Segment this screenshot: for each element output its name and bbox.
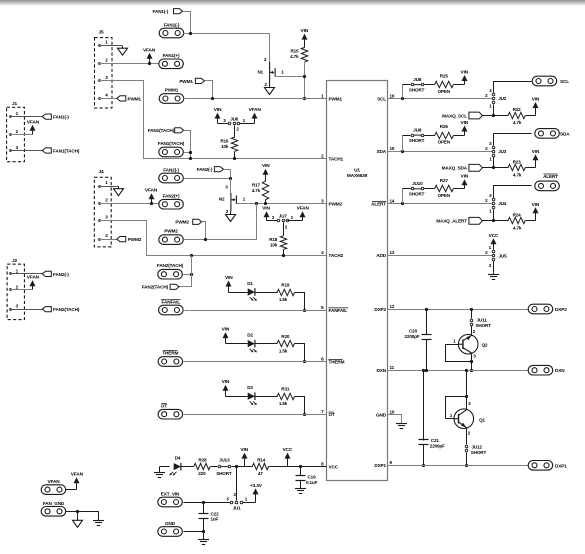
svg-text:Q1: Q1 [479, 418, 485, 423]
wire FAN2(TACH) drop to flag [180, 256, 192, 287]
svg-text:J4: J4 [98, 169, 104, 175]
power VIN at R26 [462, 126, 468, 132]
wire DXP1 line U1 pin 9 to test point [388, 465, 529, 467]
wire D4 to R28 [182, 466, 194, 468]
svg-text:DXP2: DXP2 [555, 307, 567, 312]
wire R26 to VIN [454, 135, 465, 137]
svg-text:FAN2(+): FAN2(+) [163, 193, 180, 198]
svg-text:FAN2(TACH): FAN2(TACH) [157, 263, 184, 268]
svg-text:FAN1(-): FAN1(-) [53, 115, 69, 120]
wire branch up to JU9 [402, 136, 404, 152]
wire ADD line U1 pin 13 to JU5 [388, 255, 493, 257]
ground below JU5 [493, 273, 495, 274]
svg-text:R23: R23 [513, 159, 522, 164]
svg-text:4.7k: 4.7k [252, 188, 261, 193]
op-amp U1 MAX6639 IC body [327, 81, 388, 481]
svg-text:GND: GND [165, 521, 176, 526]
svg-text:EXT_VIN: EXT_VIN [161, 491, 180, 496]
svg-text:VIN: VIN [222, 327, 230, 333]
svg-text:R20: R20 [281, 334, 290, 339]
svg-text:MAXQ_SDA: MAXQ_SDA [442, 166, 468, 171]
wire JU1 pin2 riser [236, 467, 238, 501]
svg-text:SHORT: SHORT [216, 471, 232, 476]
svg-text:MAXQ_SCL: MAXQ_SCL [442, 113, 467, 118]
wire R28 to JU13 [211, 466, 218, 468]
wire JU6 pin2 to R16 [234, 126, 236, 138]
wire J1 pin3 [10, 150, 12, 152]
svg-text:R14: R14 [257, 457, 266, 462]
capacitor C19 0.1uF [300, 467, 302, 476]
power VIN at R23 [533, 154, 539, 160]
power VIN at R24 [533, 207, 539, 213]
svg-text:JU6: JU6 [230, 117, 239, 122]
svg-text:VIN: VIN [461, 70, 469, 76]
svg-text:JU3: JU3 [498, 149, 507, 154]
wire TACH2 line to U1 pin 4 [192, 255, 327, 257]
svg-text:SHORT: SHORT [476, 323, 492, 328]
wire gnd to D4 [160, 466, 170, 468]
wire FANFAIL line to U1 pin 5 [185, 310, 327, 312]
svg-text:VIN: VIN [222, 379, 230, 385]
resistor R23 4.7k [494, 167, 509, 169]
resistor R14 47 [252, 463, 268, 469]
wire J2 pin2 [10, 289, 12, 291]
wire branch up to JU10 [402, 189, 404, 204]
power VCC above JU5 [491, 238, 497, 244]
svg-text:JU9: JU9 [413, 128, 422, 133]
svg-text:OT: OT [161, 403, 167, 408]
wire J5 pin1 [99, 45, 101, 47]
power VFAN on J4 pin2 [149, 193, 155, 199]
svg-text:VIN: VIN [532, 149, 540, 155]
wire J2 pin3 [10, 309, 12, 311]
node PWM1 flag at J5 [117, 96, 126, 101]
ground triangle FAN_GND [77, 511, 79, 520]
svg-text:14: 14 [390, 198, 395, 203]
ground below GND line [203, 532, 205, 540]
jumper JU2 3-pin [492, 97, 495, 100]
svg-text:16: 16 [390, 93, 395, 98]
svg-text:VFAN: VFAN [27, 275, 40, 281]
svg-text:FAN1(-): FAN1(-) [153, 9, 169, 14]
wire PWM1 line to U1 pin 1 [184, 98, 327, 100]
resistor R31 1.5k [277, 393, 295, 399]
svg-text:R31: R31 [281, 387, 290, 392]
svg-text:1.5k: 1.5k [279, 297, 288, 302]
power VIN above R17 [263, 169, 269, 175]
svg-text:VIN: VIN [301, 28, 309, 34]
resistor R19 1.5k [277, 289, 295, 295]
wire Q1 base-collector loop [446, 397, 467, 419]
wire GND tp line [184, 531, 204, 533]
svg-text:MAXQ_ALERT: MAXQ_ALERT [436, 219, 467, 224]
svg-text:FAN1(+): FAN1(+) [163, 53, 180, 58]
wire JU2 pin1 down to MAXQ line [493, 105, 495, 116]
wire JU4 pin3 to ALERT test point [494, 186, 532, 199]
svg-text:JU2: JU2 [498, 96, 507, 101]
wire PWM2 flag drop [202, 222, 206, 240]
svg-text:1.5k: 1.5k [279, 349, 288, 354]
transistor N2 [230, 193, 232, 212]
wire SDA line U1 to jumper JU3 [388, 151, 493, 153]
svg-text:OPEN: OPEN [438, 89, 451, 94]
node PWM2 flag [193, 219, 202, 224]
svg-text:PWM2: PWM2 [164, 229, 178, 234]
resistor R25 OPEN [424, 84, 435, 86]
svg-text:JU5: JU5 [499, 254, 508, 259]
connector J4 [94, 177, 111, 247]
svg-text:0.1uF: 0.1uF [306, 480, 318, 485]
ground at U1 pin 10 [401, 422, 403, 425]
svg-text:R16: R16 [220, 139, 229, 144]
svg-text:ADD: ADD [376, 253, 386, 258]
wire JU5 pin3 to ground [493, 261, 495, 273]
svg-text:JU1: JU1 [233, 506, 242, 511]
wire FAN2(TACH) tp stub [183, 274, 192, 276]
power VIN at R25 [462, 75, 468, 81]
svg-text:OT: OT [329, 412, 335, 417]
svg-text:C20: C20 [409, 329, 418, 334]
wire DXN to Q1 collector [466, 371, 468, 410]
svg-text:R25: R25 [440, 74, 449, 79]
svg-text:VFAN: VFAN [248, 107, 261, 113]
node FAN2(TACH) flag at J2 [42, 307, 51, 312]
svg-text:R15: R15 [291, 49, 300, 54]
svg-text:DXN: DXN [555, 368, 565, 373]
wire GND pin 10 [388, 415, 402, 423]
node FAN1(-) flag top [174, 9, 183, 14]
svg-text:PWM1: PWM1 [179, 79, 193, 84]
wire VFAN tp to arrow [66, 489, 77, 491]
svg-text:JU4: JU4 [498, 201, 507, 206]
resistor R22 4.7k [494, 115, 509, 117]
test point DXN [528, 365, 553, 375]
wire Q1 emitter to JU12 [466, 428, 468, 445]
node junction FAN1(-) [189, 32, 192, 35]
svg-text:R26: R26 [440, 124, 449, 129]
svg-text:VCC: VCC [489, 233, 499, 239]
wire EXT_VIN to JU1 [184, 502, 231, 504]
svg-text:R24: R24 [513, 212, 522, 217]
ground J4 pin1 [118, 186, 120, 189]
wire PWM2 tp to gate line riser [184, 204, 257, 240]
test point ALERT [535, 181, 560, 191]
wire J5 pin2 [99, 63, 101, 65]
jumper JU9 SHORT [403, 135, 411, 137]
svg-text:FAN_GND: FAN_GND [43, 501, 65, 506]
wire R19 to FANFAIL line [295, 293, 305, 311]
svg-text:VFAN: VFAN [27, 119, 40, 125]
svg-text:U1: U1 [354, 168, 360, 174]
svg-text:4.7k: 4.7k [513, 120, 522, 125]
svg-text:C21: C21 [431, 438, 440, 443]
svg-text:VIN: VIN [262, 163, 270, 169]
diode D2 LED [248, 340, 255, 347]
wire J4 pin3 to TACH2 line [99, 220, 101, 222]
svg-text:FAN2(-): FAN2(-) [53, 272, 69, 277]
node PWM1 flag [195, 78, 204, 83]
svg-text:VIN: VIN [262, 206, 270, 212]
svg-text:FAN1(TACH): FAN1(TACH) [148, 128, 175, 133]
svg-text:PWM1: PWM1 [128, 96, 142, 101]
wire J1 pin1 [10, 116, 12, 118]
wire SCL line U1 to jumper JU2 [388, 98, 493, 100]
capacitor C21 2200pF [423, 371, 425, 441]
wire JU11 to Q2 emitter [471, 326, 473, 335]
node MAXQ_SDA flag [469, 164, 483, 171]
svg-text:SHORT: SHORT [409, 138, 425, 143]
svg-text:D1: D1 [247, 281, 253, 286]
wire FAN1(TACH) flag drop [184, 131, 191, 159]
resistor R17 4.7k [262, 181, 268, 200]
test point DXP2 [528, 304, 553, 314]
svg-text:ALERT: ALERT [371, 201, 386, 206]
svg-text:JU8: JU8 [413, 77, 422, 82]
wire D2 to R20 [256, 343, 278, 345]
svg-text:R27: R27 [440, 178, 449, 183]
wire FAN2(-) flag drop [224, 170, 231, 179]
svg-text:VCC: VCC [329, 464, 339, 469]
ground at D4 [159, 467, 161, 473]
svg-text:JU11: JU11 [477, 318, 488, 323]
capacitor C22 1uF [203, 503, 205, 514]
svg-text:GND: GND [376, 413, 387, 418]
resistor R24 4.7k [494, 220, 509, 222]
wire R23 to VIN [526, 167, 536, 169]
transistor Q1 [454, 409, 474, 429]
wire MAXQ flag to junction [483, 220, 494, 222]
power VIN at R27 [462, 179, 468, 185]
wire FAN1(-) flag to test point line [183, 12, 191, 34]
svg-text:1.5k: 1.5k [279, 401, 288, 406]
svg-text:11: 11 [390, 365, 395, 370]
wire branch up to JU8 [402, 85, 404, 99]
node PWM2 flag at J4 [117, 237, 126, 242]
jumper JU4 3-pin [492, 202, 495, 205]
jumper JU7 [264, 211, 270, 217]
wire J5 pin3 to TACH1 line [99, 80, 101, 82]
svg-text:SCL: SCL [560, 79, 569, 84]
diode D3 LED [248, 393, 255, 400]
svg-text:J1: J1 [12, 101, 18, 107]
svg-text:SHORT: SHORT [409, 192, 425, 197]
svg-text:VFAN: VFAN [143, 47, 156, 53]
svg-text:JU10: JU10 [412, 181, 423, 186]
svg-text:VIN: VIN [225, 275, 233, 281]
svg-text:JU13: JU13 [219, 457, 230, 462]
power VIN at R22 [533, 102, 539, 108]
resistor R16 10k [231, 137, 237, 151]
svg-text:10k: 10k [221, 144, 229, 149]
wire J4 pin2 [99, 203, 101, 205]
diode D4 LED [174, 463, 181, 470]
jumper JU1 [230, 501, 233, 504]
wire D1 to R19 [256, 292, 278, 294]
connector J1 [7, 107, 25, 162]
jumper JU12 SHORT vertical [465, 445, 468, 448]
svg-text:220: 220 [198, 471, 206, 476]
svg-text:R28: R28 [198, 457, 207, 462]
svg-text:ALERT: ALERT [543, 174, 558, 179]
resistor R26 OPEN [424, 135, 435, 137]
svg-text:DXN: DXN [377, 368, 387, 373]
svg-text:JU7: JU7 [279, 213, 288, 218]
svg-text:FANFAIL: FANFAIL [329, 308, 348, 313]
svg-text:R22: R22 [513, 107, 522, 112]
wire JU2 pin3 to SCL test point [494, 82, 532, 94]
power VIN above D3 [223, 385, 229, 391]
svg-text:VFAN: VFAN [297, 206, 310, 212]
wire N2 gate / PWM2 line to U1 pin 3 [237, 203, 327, 205]
capacitor C20 2200pF [426, 310, 428, 335]
svg-text:FAN2(TACH): FAN2(TACH) [53, 307, 80, 312]
svg-text:+3.3V: +3.3V [250, 483, 263, 489]
svg-text:OPEN: OPEN [438, 193, 451, 198]
wire JU3 pin1 down to MAXQ line [493, 157, 495, 168]
node FAN1(TACH) flag at J1 [42, 148, 51, 153]
svg-text:J5: J5 [98, 30, 104, 36]
wire DXP2 line U1 pin 12 to test point [388, 309, 529, 311]
wire J1 pin2 [10, 134, 12, 136]
wire J4 pin1 [99, 186, 101, 188]
wire FAN1(TACH) tp stub [184, 152, 191, 154]
wire R17 bottom [265, 200, 267, 204]
wire R15 to PWM1 line [304, 63, 306, 99]
power VIN on VCC row [242, 453, 248, 459]
wire MAXQ flag to junction [483, 167, 494, 169]
svg-text:FAN1(TACH): FAN1(TACH) [53, 148, 80, 153]
svg-text:10k: 10k [270, 243, 278, 248]
resistor R18 10k [280, 236, 286, 250]
wire R14 to U1 pin 8 [269, 466, 327, 468]
wire R16 to TACH1 line [234, 152, 236, 159]
svg-text:1uF: 1uF [211, 517, 219, 522]
power VIN above D2 [223, 332, 229, 338]
jumper JU5 3-pin vertical [492, 254, 495, 257]
svg-text:SDA: SDA [560, 131, 570, 136]
svg-text:13: 13 [390, 250, 395, 255]
ground below C19 [300, 481, 302, 488]
svg-text:PWM1: PWM1 [165, 88, 179, 93]
svg-text:DXP1: DXP1 [555, 463, 567, 468]
wire MAXQ flag to junction [483, 115, 494, 117]
resistor R20 1.5k [277, 340, 295, 346]
wire C22 to GND line [203, 519, 205, 532]
svg-text:J2: J2 [12, 258, 18, 264]
wire R24 to VIN [526, 220, 536, 222]
wire FAN2(-) to N2 drain [184, 178, 231, 180]
wire R25 to VIN [454, 84, 465, 86]
svg-text:DXP2: DXP2 [374, 307, 386, 312]
test point SDA [535, 129, 560, 139]
power VFAN at J1 [30, 125, 36, 131]
wire R31 to OT line [295, 397, 305, 415]
svg-text:PWM2: PWM2 [128, 237, 142, 242]
svg-text:OPEN: OPEN [438, 139, 451, 144]
node FAN2(TACH) flag [170, 284, 179, 289]
connector J5 [95, 38, 113, 108]
svg-text:R19: R19 [281, 283, 290, 288]
ground bars FAN_GND [98, 511, 100, 520]
jumper JU11 SHORT vertical [471, 310, 473, 319]
svg-text:FAN1(-): FAN1(-) [164, 22, 180, 27]
svg-text:N2: N2 [219, 197, 225, 202]
svg-text:10: 10 [390, 410, 395, 415]
svg-text:FAN2(-): FAN2(-) [197, 167, 213, 172]
power VFAN at J2 [30, 280, 36, 286]
svg-text:FAN2(-): FAN2(-) [163, 168, 179, 173]
connector J2 [7, 264, 24, 320]
wire TACH1 line to U1 pin 2 [191, 158, 327, 160]
wire JU7 pin2 to R18 [283, 223, 285, 236]
wire J4 pin4 to PWM2 flag [99, 239, 101, 241]
svg-text:VCC: VCC [282, 447, 292, 453]
node FAN1(TACH) flag [175, 128, 184, 133]
wire JU4 pin1 down to MAXQ line [493, 210, 495, 221]
power +3.3V [253, 488, 259, 494]
svg-text:PWM2: PWM2 [329, 202, 343, 207]
svg-text:12: 12 [390, 304, 395, 309]
svg-text:THERM: THERM [329, 359, 345, 364]
svg-text:VFAN: VFAN [145, 188, 158, 194]
wire J5 pin4 to PWM1 flag [99, 98, 101, 100]
svg-text:PWM1: PWM1 [329, 96, 343, 101]
resistor R15 4.7k [301, 47, 307, 62]
wire D3 to R31 [256, 396, 278, 398]
svg-text:D4: D4 [175, 455, 181, 460]
transistor N1 [269, 62, 271, 85]
svg-text:C19: C19 [308, 475, 317, 480]
wire ALERT line U1 to jumper JU4 [388, 203, 493, 205]
svg-text:VFAN: VFAN [48, 479, 61, 484]
node FAN2(-) flag at J2 [42, 271, 51, 276]
svg-text:VIN: VIN [532, 202, 540, 208]
svg-text:VIN: VIN [532, 97, 540, 103]
jumper JU10 SHORT [403, 188, 411, 190]
resistor R27 OPEN [424, 188, 435, 190]
svg-text:JU12: JU12 [472, 445, 483, 450]
svg-text:R18: R18 [269, 237, 278, 242]
wire VIN to D2 [226, 343, 248, 345]
wire Q2 collector to DXN [471, 354, 473, 371]
wire FAN_GND to grounds [66, 511, 99, 513]
svg-text:VIN: VIN [214, 107, 222, 113]
jumper JU13 SHORT [218, 465, 221, 468]
wire THERM line to U1 pin 6 [184, 361, 327, 363]
test point DXP1 [528, 461, 553, 471]
svg-text:FANFAIL: FANFAIL [162, 300, 181, 305]
svg-text:15: 15 [390, 146, 395, 151]
wire JU13 to VIN junction [232, 466, 253, 468]
svg-text:FAN1(TACH): FAN1(TACH) [158, 141, 185, 146]
svg-text:SHORT: SHORT [471, 450, 487, 455]
ground J5 pin1 [122, 46, 124, 49]
wire R27 to VIN [454, 188, 465, 190]
svg-text:D2: D2 [247, 332, 253, 337]
power VCC on VCC row [285, 453, 291, 459]
power VFAN bottom [74, 477, 80, 483]
svg-text:VIN: VIN [240, 447, 248, 453]
node FAN2(-) flag [214, 167, 223, 172]
svg-text:2200pF: 2200pF [405, 334, 420, 339]
svg-text:TACH2: TACH2 [329, 253, 344, 258]
svg-text:TACH1: TACH1 [329, 156, 344, 161]
power VIN above D1 [226, 281, 232, 287]
wire OT line to U1 pin 7 [184, 414, 327, 416]
wire R22 to VIN [526, 115, 536, 117]
jumper JU6 [215, 113, 221, 119]
svg-text:Q2: Q2 [482, 342, 488, 347]
